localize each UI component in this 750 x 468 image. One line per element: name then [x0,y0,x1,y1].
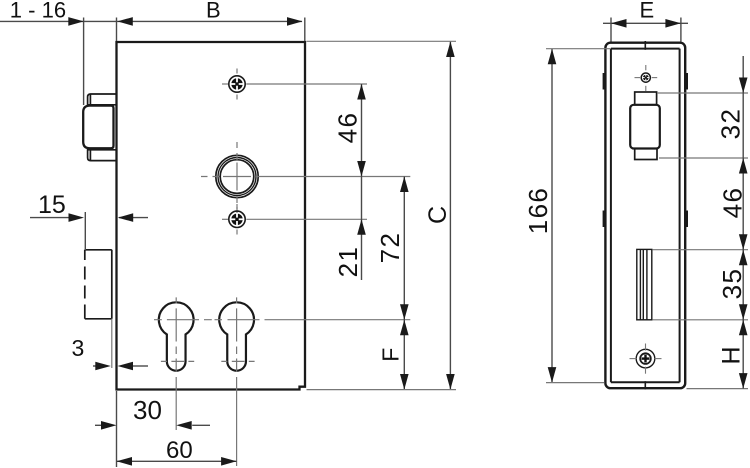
screw hole top (pozidriv) [222,69,245,100]
svg-text:3: 3 [72,335,85,361]
dim 46 / 21 vertical line [361,84,363,280]
faceplate outline [605,43,685,389]
deadbolt (dashed extended position) [85,250,112,319]
svg-text:F: F [377,348,403,362]
leaders right view [652,93,748,389]
cylinder centerlines [201,142,410,213]
svg-text:46: 46 [718,187,748,219]
latch bolt head [83,106,113,149]
arrow B right [287,17,303,26]
euro profile cutout 1 centerlines [154,297,212,430]
dim line top (1-16 and B) [0,18,305,106]
dim 15 [30,212,148,250]
weld nubs [603,73,688,227]
svg-text:21: 21 [333,246,363,278]
screw hole middle (pozidriv) [222,204,245,235]
lock case body (front view) [117,42,306,390]
top edge extension to C [307,40,457,42]
right dim chain line [742,56,744,389]
svg-text:E: E [640,0,655,23]
dim 30 [95,391,210,467]
latch bolt (edge view) body [630,105,660,149]
svg-text:H: H [718,346,746,364]
svg-text:72: 72 [375,232,405,264]
cylinder slot (edge view) [637,249,652,319]
dim 60 [117,460,237,462]
arrow B left [117,17,133,26]
svg-text:60: 60 [166,437,193,464]
svg-text:166: 166 [523,187,553,235]
deadbolt front extension line (for dim 3) [111,319,113,368]
euro profile cutout 2 centerlines [215,297,411,466]
screw top (edge view) [635,65,658,91]
leader from middle screw to dim 21 [246,218,367,220]
leader from top screw to dim 46 [246,83,367,85]
dim 166 [551,49,553,383]
dim 3 [93,365,148,367]
latch bolt (edge view) top cap [635,92,657,105]
svg-text:1 - 16: 1 - 16 [10,0,66,23]
center tick bottom [644,381,646,389]
svg-text:B: B [206,0,221,23]
euro profile cutout 1 [159,302,194,370]
latch bolt (edge view) bottom cap [635,149,657,160]
svg-text:32: 32 [716,108,746,140]
bottom edge extension to C [307,389,457,391]
svg-text:46: 46 [333,112,363,144]
dim C vertical line [449,42,451,390]
svg-text:C: C [424,206,452,224]
arrow 1-16 right [68,17,84,26]
latch bolt bottom guide [88,150,117,161]
center tick top [644,41,646,50]
dim 72 / F vertical line [403,177,405,390]
166 extension top [546,48,611,50]
lock case inner edges [611,49,680,383]
euro profile cutout 2 [219,302,254,370]
dim E [603,18,688,42]
svg-text:35: 35 [717,268,747,300]
svg-text:30: 30 [133,395,162,425]
cylinder hole rings [216,155,258,197]
screw bottom (edge view) [630,344,662,374]
166 extension bottom [546,382,605,384]
svg-text:15: 15 [38,191,66,219]
latch bolt top guide [88,94,117,105]
